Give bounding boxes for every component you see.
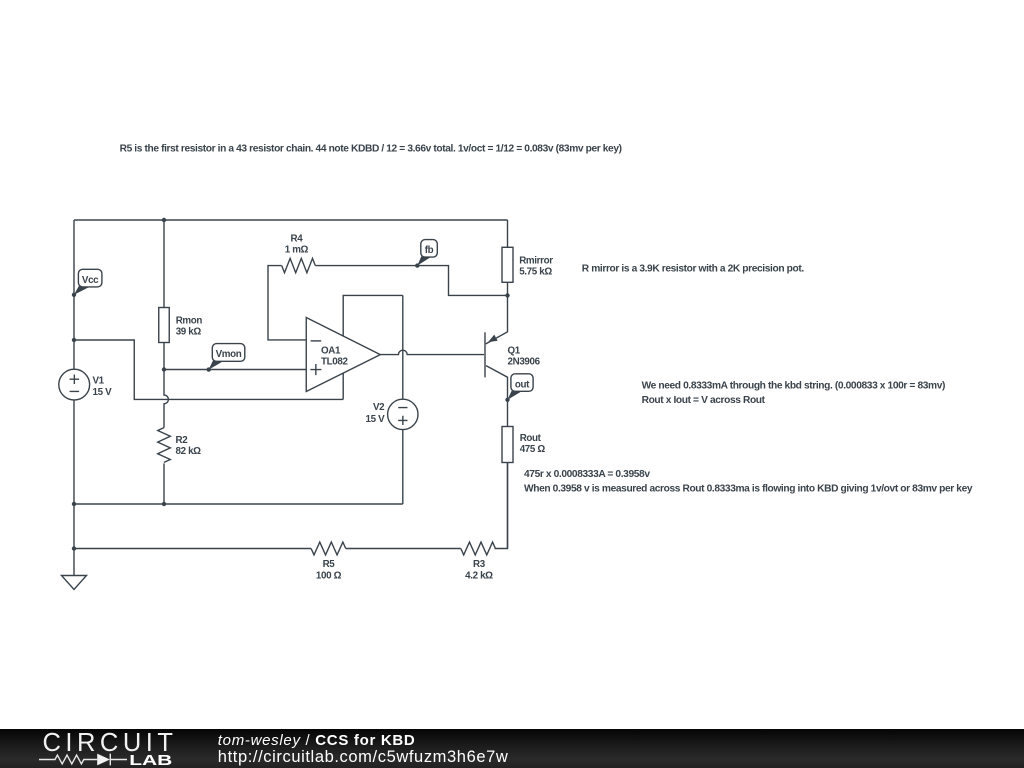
node fb tap [415,263,419,267]
net flag fb [417,240,437,266]
node Vcc tap [72,293,76,297]
transistor Q1 [485,295,541,399]
wire opamp V+ pin up and over to V2 [343,295,403,336]
wire opamp V- pin down [342,373,344,399]
node left rail / mid bottom wire [72,502,76,506]
node Vmon tap [207,367,211,371]
footer bar [0,729,1024,768]
node out tap [505,398,509,402]
wire vertical Rmon-R2 with hop over V- row [164,370,168,428]
wire left rail upper [73,220,75,370]
wire mid bottom row [74,503,403,505]
wire R4 left lead and V- input [268,266,306,340]
node R2 bottom junction [162,502,166,506]
wire bottom row [74,548,311,550]
resistor R5 [311,542,346,581]
resistor R4 [282,233,316,272]
voltage source V1 [59,369,112,400]
net flag Vmon [209,344,245,370]
ground [62,576,87,590]
wire R3 to Rout bottom [495,463,508,549]
resistor Rmon [159,220,203,370]
wire V2 top lead [402,295,404,399]
resistor R2 [158,428,201,504]
net flag Vcc [74,269,102,295]
resistor Rmirror [502,220,553,295]
svg-text:http://circuitlab.com/c5wfuzm3: http://circuitlab.com/c5wfuzm3h6e7w [218,748,509,766]
wire R4 right to fb corner to Rmirror node [315,266,507,296]
voltage source V2 [366,399,418,429]
node branch to opamp V- [72,338,76,342]
resistor R3 [461,542,496,581]
net flag out [508,374,534,400]
wire opamp output to Q1 base with hop over V2 lead [380,350,484,354]
wire top rail [74,219,508,221]
wire between R5 and R3 [346,548,461,550]
wire left rail below V1 [73,400,75,575]
logo resistor-diode glyph [39,754,127,766]
svg-text:LAB: LAB [129,751,172,768]
svg-text:tom-wesley / CCS for KBD: tom-wesley / CCS for KBD [218,732,416,749]
node left rail / bottom wire [72,546,76,550]
resistor Rout [502,400,545,549]
wire Vmon row to opamp + input [164,369,306,371]
wire V2 bottom lead [402,430,404,504]
wire branch left rail to opamp V- pin [74,340,343,399]
node junction top rail / Rmon [162,218,166,222]
node Vmon junction [162,367,166,371]
op-amp OA1 [306,318,380,392]
node Rmirror / fb / Q1 junction [505,293,509,297]
